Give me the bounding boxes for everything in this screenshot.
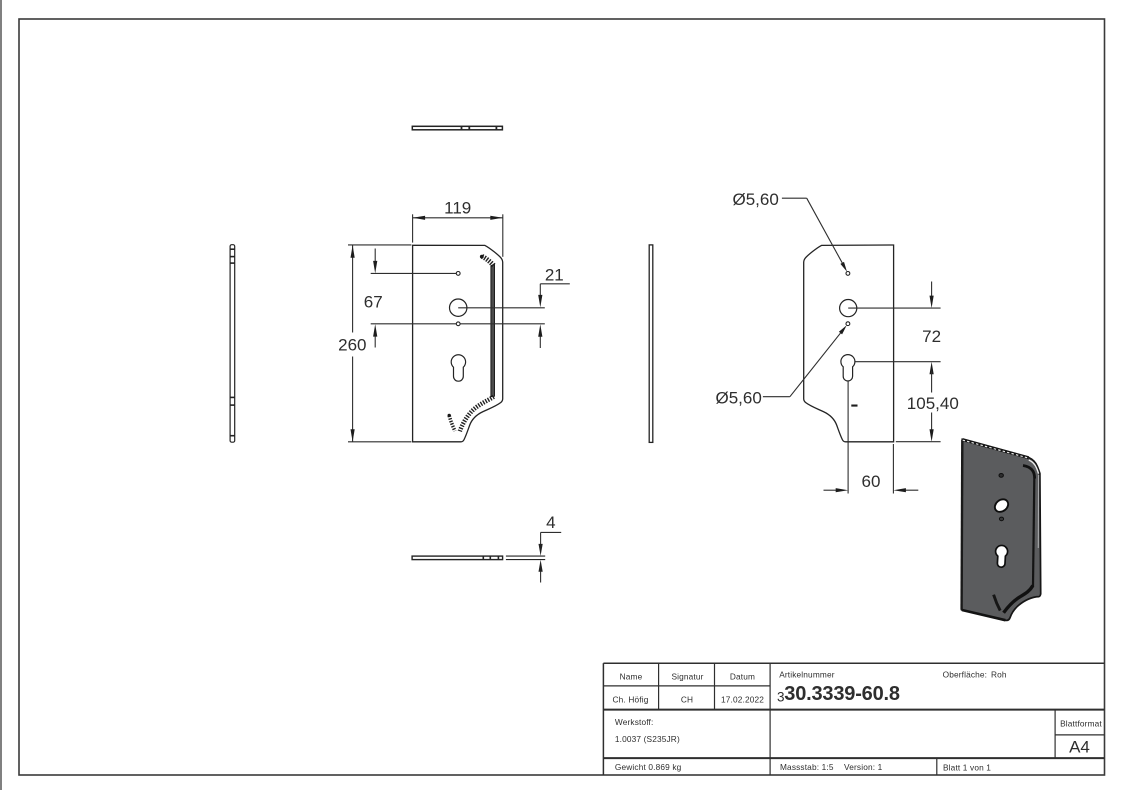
leader top hole — [371, 272, 457, 274]
thickness extension lines — [506, 555, 545, 557]
keyhole centerline down — [847, 382, 849, 494]
svg-text:4: 4 — [546, 513, 555, 532]
divider name-signatur — [658, 663, 660, 709]
svg-text:105,40: 105,40 — [907, 394, 959, 413]
iso top edge stitch highlight — [963, 440, 1029, 458]
bent edge hatched top — [482, 256, 494, 265]
top view strip — [412, 126, 502, 130]
paper left edge — [0, 0, 2, 790]
small dash mark — [851, 405, 857, 407]
svg-text:260: 260 — [338, 336, 366, 355]
front view — [371, 245, 545, 441]
iso big hole — [992, 497, 1010, 515]
svg-text:Blattformat: Blattformat — [1060, 719, 1102, 729]
bent edge hatched bottom curve — [460, 397, 494, 432]
3D isometric view — [962, 439, 1041, 620]
middle small hole — [456, 322, 460, 326]
dim 119 — [413, 199, 503, 257]
middle side view strip — [649, 245, 653, 443]
dia 5,60 callout bottom — [716, 325, 847, 407]
svg-text:Gewicht 0.869 kg: Gewicht 0.869 kg — [615, 762, 682, 772]
svg-text:119: 119 — [444, 199, 471, 218]
keyhole front — [451, 355, 465, 381]
svg-text:Ø5,60: Ø5,60 — [716, 388, 762, 407]
big hole (handle) — [450, 299, 467, 316]
leader through big hole — [458, 307, 545, 309]
dim 72 — [922, 282, 941, 375]
svg-text:17.02.2022: 17.02.2022 — [721, 695, 764, 705]
divider signatur-datum — [714, 663, 716, 709]
right (back) view — [804, 245, 941, 494]
blattformat cell divider — [1055, 734, 1104, 736]
iso bottom edge thickness — [962, 610, 1005, 620]
iso plate body — [962, 439, 1041, 620]
svg-text:Oberfläche:: Oberfläche: — [943, 670, 988, 680]
title block left border — [602, 663, 604, 775]
front plate outline — [413, 245, 503, 441]
dim 4 — [539, 513, 562, 583]
dim 60 — [824, 444, 919, 494]
front dimensions — [338, 199, 570, 442]
svg-text:Signatur: Signatur — [671, 672, 703, 682]
back top small hole — [846, 272, 850, 276]
top small hole — [456, 272, 460, 276]
svg-text:Ch. Höfig: Ch. Höfig — [613, 695, 649, 705]
svg-text:30.3339-60.8: 30.3339-60.8 — [784, 683, 900, 705]
bottom view strip and thickness dim — [412, 513, 561, 583]
svg-text:A4: A4 — [1069, 737, 1090, 756]
svg-text:72: 72 — [922, 327, 941, 346]
leader middle small hole — [371, 323, 545, 325]
iso bend crease — [1033, 479, 1034, 587]
row divider under header — [603, 685, 770, 687]
bent edge solid band — [491, 264, 495, 397]
back plate outline — [804, 245, 894, 442]
bent crease V left stroke — [449, 416, 455, 431]
thick divider above footer row — [603, 757, 1104, 759]
svg-text:Blatt 1 von 1: Blatt 1 von 1 — [943, 762, 991, 772]
svg-text:Ø5,60: Ø5,60 — [733, 190, 779, 209]
svg-text:Artikelnummer: Artikelnummer — [779, 670, 835, 680]
svg-text:60: 60 — [862, 472, 881, 491]
iso middle small hole — [999, 517, 1003, 521]
left side view strip — [230, 245, 235, 443]
blattformat cell left — [1054, 710, 1056, 759]
keyhole back — [841, 355, 855, 381]
dim 21 — [538, 265, 570, 348]
iso keyhole — [996, 545, 1008, 567]
title block — [603, 663, 1104, 775]
iso bottom crease arc — [994, 595, 1001, 611]
dia 5,60 callout top — [733, 190, 848, 272]
dim 105,40 — [896, 371, 959, 442]
footer divider blatt — [936, 758, 938, 775]
iso top edge bevel — [963, 440, 1029, 458]
iso ogee white slit — [1029, 460, 1039, 474]
dim 260 — [338, 245, 411, 442]
iso left edge — [960, 440, 963, 610]
thick divider under row2 — [603, 709, 1104, 711]
title block top border — [603, 662, 1104, 664]
svg-text:Datum: Datum — [730, 672, 755, 682]
iso top small hole — [999, 474, 1003, 478]
back middle small hole — [846, 322, 850, 326]
back big hole — [840, 300, 857, 317]
svg-text:1.0037 (S235JR): 1.0037 (S235JR) — [615, 734, 680, 744]
svg-text:21: 21 — [545, 265, 564, 284]
divider datum-artikel — [769, 663, 771, 775]
leader from keyhole — [849, 361, 941, 363]
leader from big hole — [848, 307, 940, 309]
right view dimensions — [716, 190, 959, 494]
svg-text:67: 67 — [364, 293, 383, 312]
svg-text:CH: CH — [681, 695, 693, 705]
iso cutout thickness band — [1004, 586, 1033, 613]
iso right edge inner light line — [1037, 475, 1039, 548]
iso flange hook — [1023, 466, 1035, 479]
svg-text:Name: Name — [620, 672, 643, 682]
svg-text:Roh: Roh — [991, 670, 1007, 680]
dim 67 — [364, 249, 383, 348]
svg-text:Werkstoff:: Werkstoff: — [615, 717, 654, 727]
svg-text:Version: 1: Version: 1 — [844, 762, 883, 772]
svg-text:Massstab: 1:5: Massstab: 1:5 — [780, 762, 834, 772]
